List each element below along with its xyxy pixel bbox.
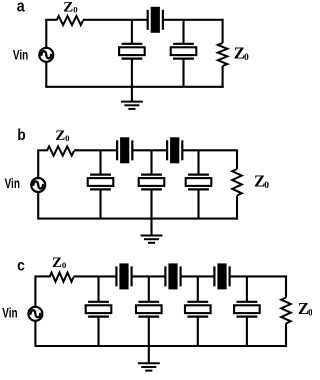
ground (c): [138, 346, 160, 371]
svg-text:0: 0: [264, 181, 269, 191]
resistor Z0 load (b): [232, 169, 242, 196]
resistor Z0 source (b): [47, 146, 74, 155]
wire top: corner to resistor (a): [45, 19, 56, 21]
svg-text:0: 0: [65, 133, 70, 143]
wire top segment 1 (b): [74, 149, 117, 151]
svg-text:Z: Z: [63, 0, 73, 16]
wire top segment 1 (a): [83, 19, 148, 21]
wire shunt 2 upper (b): [150, 150, 152, 174]
svg-text:0: 0: [62, 260, 67, 270]
wire shunt 1 lower (b): [99, 189, 101, 218]
wire shunt 2 lower (b): [150, 189, 152, 218]
svg-text:c: c: [17, 258, 25, 275]
wire top segment 1 (c): [74, 275, 117, 277]
wire bottom (b): [37, 218, 238, 220]
wire shunt 2 lower (c): [148, 317, 150, 346]
wire left branch bottom (b): [37, 193, 39, 219]
crystal series 1 (a): [148, 7, 163, 33]
wire shunt 1 lower (a): [131, 59, 133, 87]
svg-text:0: 0: [308, 308, 312, 318]
source Vin (a): [39, 48, 53, 62]
wire top to right corner (b): [182, 149, 238, 151]
crystal shunt 1 (a): [119, 44, 145, 59]
svg-text:0: 0: [73, 5, 78, 15]
wire top: corner to resistor (c): [34, 275, 49, 277]
svg-text:0: 0: [244, 53, 249, 63]
wire bottom (a): [45, 86, 224, 88]
wire top: corner to resistor (b): [37, 149, 47, 151]
wire left branch bottom (c): [34, 321, 36, 346]
wire right branch bottom (c): [285, 324, 287, 348]
wire shunt 4 upper (c): [246, 276, 248, 301]
crystal shunt 1 (c): [86, 302, 112, 317]
crystal series 2 (b): [167, 137, 182, 163]
resistor Z0 source (c): [50, 273, 74, 282]
wire bottom (c): [34, 345, 287, 347]
wire top segment 2 (c): [132, 275, 166, 277]
wire top to right corner (c): [230, 275, 288, 277]
crystal shunt 4 (c): [234, 302, 260, 317]
crystal shunt 2 (a): [171, 44, 197, 59]
wire shunt 2 lower (a): [182, 59, 184, 87]
wire right branch top (a): [222, 20, 224, 43]
wire left branch bottom (a): [45, 62, 47, 87]
source Vin (b): [31, 178, 45, 192]
svg-text:Vin: Vin: [5, 175, 20, 191]
crystal shunt 3 (c): [185, 302, 211, 317]
wire right branch bottom (a): [222, 66, 224, 88]
source Vin (c): [28, 307, 42, 321]
wire right branch bottom (b): [236, 196, 238, 220]
wire left branch top (c): [34, 276, 36, 306]
crystal shunt 2 (c): [136, 302, 162, 317]
wire shunt 2 upper (c): [148, 276, 150, 301]
wire shunt 3 upper (b): [197, 150, 199, 174]
wire top segment 2 (b): [132, 149, 167, 151]
svg-text:Vin: Vin: [13, 47, 28, 63]
svg-text:Z: Z: [52, 255, 62, 271]
wire shunt 2 upper (a): [182, 20, 184, 44]
wire left branch top (a): [45, 20, 47, 48]
wire shunt 3 lower (b): [197, 189, 199, 218]
wire top to right corner (a): [163, 19, 224, 21]
crystal series 1 (b): [117, 137, 132, 163]
svg-text:b: b: [17, 127, 25, 144]
wire shunt 1 upper (c): [97, 276, 99, 301]
svg-text:Z: Z: [55, 128, 65, 144]
svg-text:a: a: [17, 0, 25, 15]
wire shunt 4 lower (c): [246, 317, 248, 346]
ground (a): [121, 87, 143, 109]
crystal shunt 2 (b): [139, 175, 165, 190]
crystal shunt 3 (b): [186, 175, 212, 190]
wire shunt 3 upper (c): [197, 276, 199, 301]
wire shunt 1 upper (a): [131, 20, 133, 44]
crystal series 3 (c): [214, 263, 229, 289]
wire left branch top (b): [37, 150, 39, 177]
wire top segment 3 (c): [181, 275, 215, 277]
crystal series 1 (c): [116, 263, 131, 289]
svg-text:Vin: Vin: [2, 304, 17, 320]
crystal shunt 1 (b): [88, 175, 114, 190]
resistor Z0 load (a): [218, 43, 228, 66]
wire right branch top (c): [285, 276, 287, 297]
resistor Z0 load (c): [281, 298, 291, 324]
wire right branch top (b): [236, 150, 238, 169]
resistor Z0 source (a): [57, 16, 84, 25]
wire shunt 1 upper (b): [99, 150, 101, 174]
crystal series 2 (c): [165, 263, 180, 289]
wire shunt 3 lower (c): [197, 317, 199, 346]
wire shunt 1 lower (c): [97, 317, 99, 346]
ground (b): [141, 219, 163, 243]
